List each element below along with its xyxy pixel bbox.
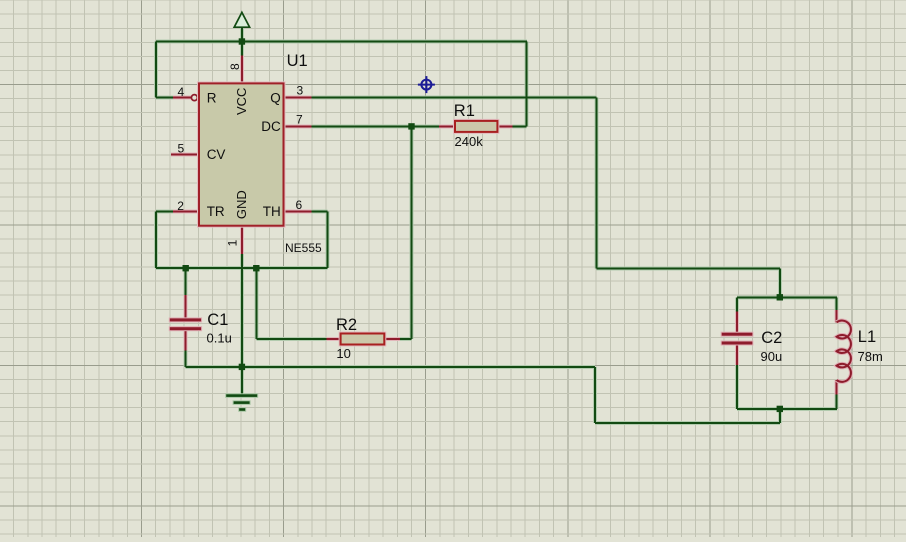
svg-text:90u: 90u [761, 349, 783, 364]
svg-text:240k: 240k [455, 134, 484, 149]
svg-text:DC: DC [261, 119, 281, 134]
svg-text:2: 2 [177, 199, 184, 213]
svg-text:NE555: NE555 [285, 241, 322, 255]
svg-text:78m: 78m [858, 349, 883, 364]
svg-text:R: R [207, 90, 217, 105]
svg-text:8: 8 [228, 63, 242, 70]
svg-text:R1: R1 [454, 102, 475, 120]
svg-text:3: 3 [297, 84, 304, 98]
svg-text:Q: Q [270, 90, 281, 105]
svg-text:1: 1 [226, 239, 240, 246]
svg-text:C2: C2 [761, 329, 782, 347]
svg-text:7: 7 [296, 113, 303, 127]
svg-text:C1: C1 [207, 311, 228, 329]
svg-text:CV: CV [207, 147, 226, 162]
svg-text:U1: U1 [287, 52, 308, 70]
svg-text:0.1u: 0.1u [207, 331, 232, 346]
svg-text:VCC: VCC [234, 88, 249, 115]
svg-text:4: 4 [178, 85, 185, 99]
svg-text:TH: TH [263, 204, 281, 219]
svg-text:TR: TR [207, 204, 225, 219]
svg-text:6: 6 [296, 198, 303, 212]
svg-text:GND: GND [234, 190, 249, 219]
svg-text:5: 5 [178, 141, 185, 155]
svg-text:R2: R2 [336, 316, 357, 334]
svg-text:10: 10 [336, 346, 350, 361]
svg-text:L1: L1 [858, 328, 876, 346]
